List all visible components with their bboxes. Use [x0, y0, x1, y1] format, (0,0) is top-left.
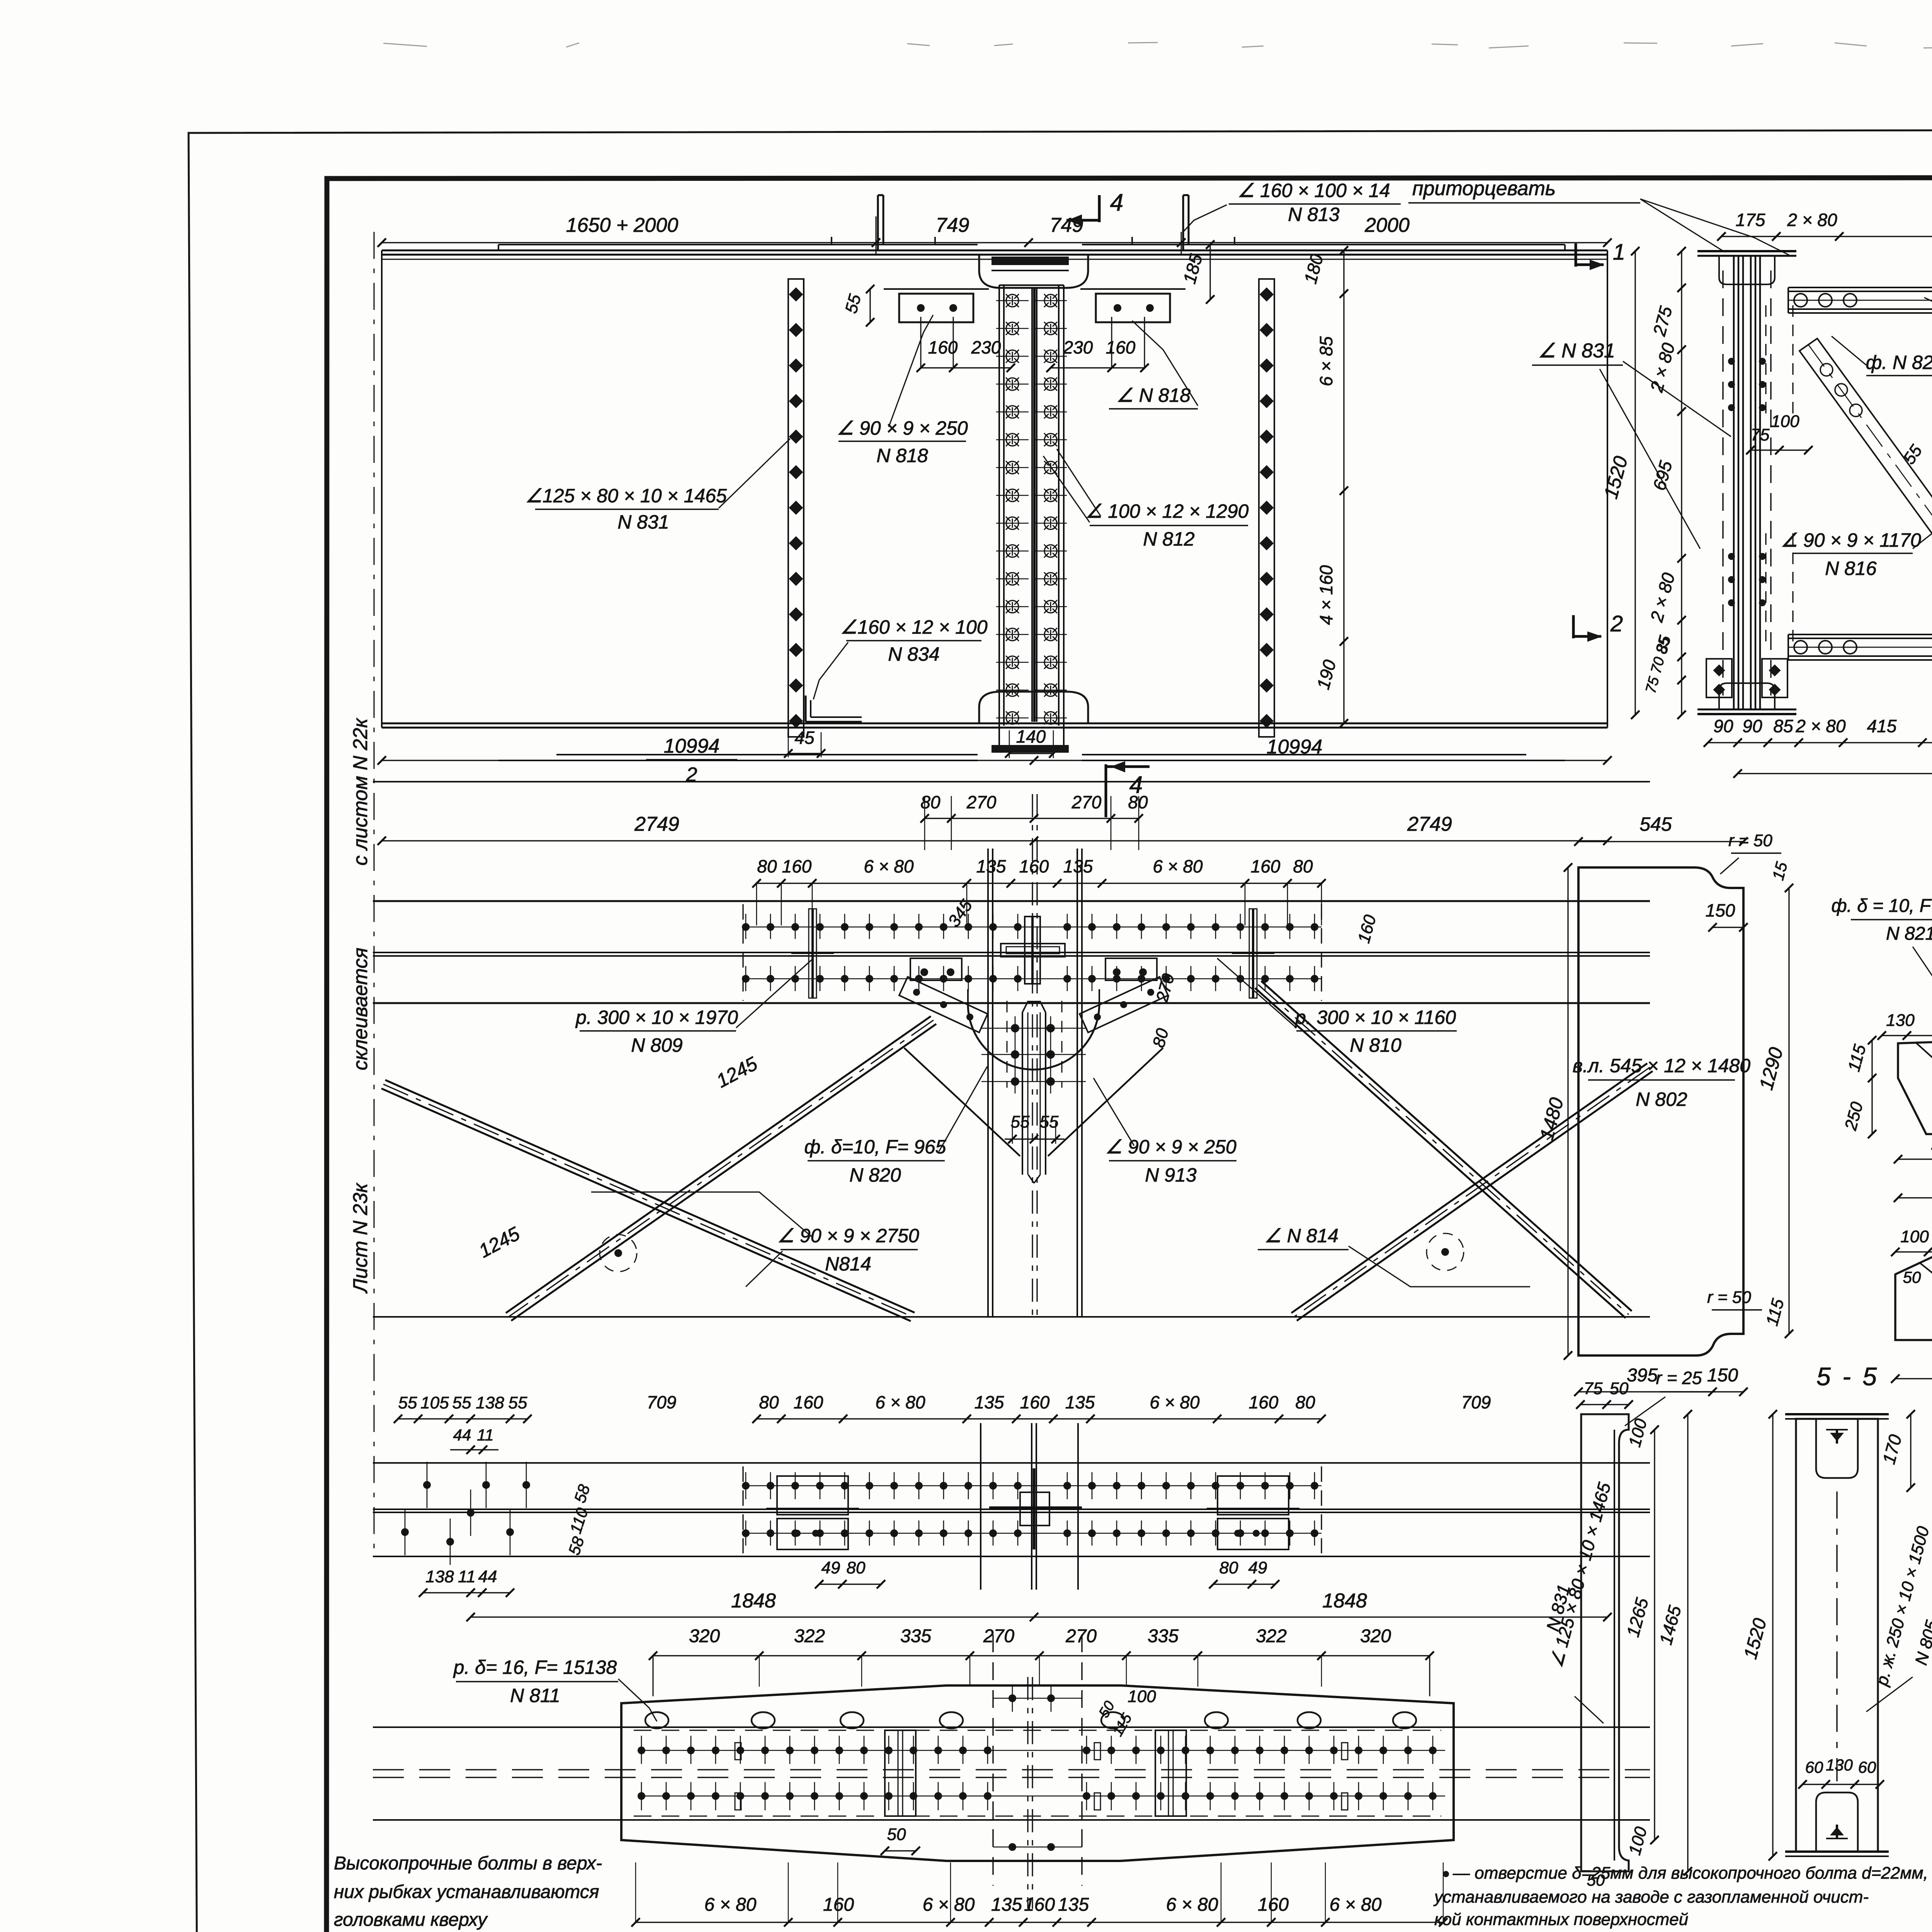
svg-text:60: 60 [1858, 1758, 1876, 1776]
svg-text:100: 100 [1128, 1687, 1156, 1706]
svg-text:6 × 80: 6 × 80 [704, 1895, 757, 1915]
svg-text:160: 160 [1020, 1392, 1050, 1412]
3-3 top chord [1788, 287, 1932, 288]
svg-text:N 818: N 818 [876, 445, 928, 466]
svg-text:∠ 90 × 9 × 1170: ∠ 90 × 9 × 1170 [1781, 529, 1921, 551]
beam band plan [373, 781, 1650, 782]
svg-text:р. 300 × 10 × 1160: р. 300 × 10 × 1160 [1294, 1007, 1456, 1028]
svg-text:∠ N 818: ∠ N 818 [1116, 384, 1190, 406]
cross beam vertical band [987, 849, 989, 1318]
stiffener angle N831 left [788, 279, 804, 737]
svg-text:N 812: N 812 [1143, 528, 1195, 550]
svg-text:160: 160 [1019, 856, 1049, 876]
svg-text:44: 44 [453, 1426, 471, 1444]
svg-text:49: 49 [821, 1558, 840, 1577]
svg-text:50: 50 [1587, 1871, 1605, 1889]
svg-text:80: 80 [847, 1558, 866, 1577]
svg-text:80: 80 [1295, 1392, 1315, 1412]
3-3 V braces [1799, 338, 1932, 607]
plan bolt rows [746, 927, 1321, 927]
gusset bolt group [1011, 1024, 1019, 1032]
svg-text:r = 50: r = 50 [1707, 1288, 1751, 1307]
X brace diagonals [385, 1080, 915, 1313]
svg-text:75: 75 [1751, 425, 1770, 444]
svg-text:335: 335 [1148, 1626, 1179, 1646]
svg-text:270: 270 [983, 1626, 1014, 1646]
svg-text:N 820: N 820 [849, 1164, 901, 1186]
svg-text:160: 160 [1106, 337, 1136, 357]
transverse connector left [811, 909, 814, 998]
svg-text:150: 150 [1706, 900, 1735, 920]
svg-text:415: 415 [1867, 716, 1897, 736]
svg-text:230: 230 [1063, 337, 1093, 357]
svg-text:160: 160 [794, 1392, 823, 1412]
strip bolt rows [746, 1485, 1321, 1486]
svg-text:1650 + 2000: 1650 + 2000 [566, 214, 679, 236]
svg-text:130: 130 [1886, 1011, 1915, 1030]
svg-text:44: 44 [478, 1567, 497, 1586]
svg-text:N 813: N 813 [1288, 204, 1340, 225]
svg-text:80: 80 [1219, 1558, 1238, 1577]
svg-text:r = 50: r = 50 [1728, 831, 1772, 850]
svg-text:160: 160 [823, 1895, 854, 1915]
svg-text:135: 135 [1063, 856, 1093, 876]
svg-text:322: 322 [794, 1626, 825, 1646]
fish verticals [885, 1730, 916, 1816]
svg-text:N 821: N 821 [1886, 923, 1932, 944]
svg-text:N 811: N 811 [510, 1685, 560, 1706]
svg-text:55: 55 [1011, 1112, 1030, 1131]
svg-text:140: 140 [1016, 726, 1046, 747]
top flange [382, 250, 1607, 252]
svg-text:138: 138 [425, 1567, 454, 1586]
svg-text:55: 55 [398, 1393, 417, 1412]
band-bottom tabs [910, 958, 962, 980]
3-3 bottom chord [1788, 634, 1932, 635]
svg-text:2 × 80: 2 × 80 [1795, 716, 1846, 736]
svg-text:545: 545 [1639, 813, 1672, 835]
svg-text:ф. N 821: ф. N 821 [1866, 352, 1932, 373]
svg-text:270: 270 [1065, 1626, 1097, 1646]
svg-text:80: 80 [757, 856, 777, 876]
oval holes [645, 1712, 668, 1728]
svg-text:N 816: N 816 [1825, 558, 1877, 579]
svg-text:Лист N 23к: Лист N 23к [349, 1182, 372, 1294]
top splice packing [979, 255, 1088, 288]
svg-text:55: 55 [452, 1393, 471, 1412]
svg-text:749: 749 [936, 214, 969, 236]
plan bottom boundary [373, 1316, 1650, 1318]
strip left bolts [401, 1528, 409, 1536]
svg-text:∠ 160 × 100 × 14: ∠ 160 × 100 × 14 [1237, 180, 1390, 201]
svg-text:N 834: N 834 [888, 643, 939, 665]
svg-text:1: 1 [1613, 240, 1625, 265]
stiffener tabs [877, 195, 879, 250]
svg-text:160: 160 [1258, 1895, 1289, 1915]
svg-text:∠ N 814: ∠ N 814 [1264, 1225, 1338, 1247]
svg-text:11: 11 [458, 1567, 476, 1586]
svg-text:80: 80 [759, 1392, 779, 1412]
svg-text:50: 50 [1903, 1268, 1921, 1286]
scan artifact dashes top [383, 43, 427, 46]
svg-text:2000: 2000 [1364, 214, 1410, 236]
svg-text:90: 90 [1742, 716, 1762, 736]
cross symbol (transverse stiffener) [1001, 944, 1065, 957]
svg-text:приторцевать: приторцевать [1412, 177, 1556, 200]
svg-text:135: 135 [975, 1392, 1004, 1412]
svg-text:230: 230 [971, 337, 1001, 357]
section mark 4 lower [1105, 764, 1107, 817]
brace end plates [899, 977, 988, 1032]
svg-text:135: 135 [1058, 1895, 1089, 1915]
svg-text:100: 100 [1900, 1227, 1929, 1246]
svg-text:ф. δ = 10, F = 1112: ф. δ = 10, F = 1112 [1831, 896, 1932, 916]
svg-text:6 × 80: 6 × 80 [1330, 1895, 1382, 1915]
svg-text:55: 55 [509, 1393, 527, 1412]
svg-text:N 831: N 831 [617, 511, 669, 533]
svg-text:6 × 80: 6 × 80 [875, 1392, 925, 1412]
svg-text:N 810: N 810 [1350, 1034, 1401, 1056]
svg-text:∠ 90 × 9 × 250: ∠ 90 × 9 × 250 [1105, 1136, 1236, 1158]
svg-text:6 × 80: 6 × 80 [1150, 1392, 1200, 1412]
DETAIL pentagon N820 [1898, 1040, 1932, 1134]
svg-text:6 × 80: 6 × 80 [923, 1895, 975, 1915]
svg-text:135: 135 [991, 1895, 1022, 1915]
svg-text:r = 25: r = 25 [1656, 1368, 1702, 1388]
svg-text:320: 320 [1360, 1626, 1391, 1646]
svg-text:2 × 80: 2 × 80 [1787, 210, 1837, 230]
svg-text:138: 138 [476, 1393, 504, 1412]
svg-text:270: 270 [1071, 792, 1102, 812]
svg-text:160: 160 [1251, 856, 1281, 876]
svg-text:N 802: N 802 [1636, 1088, 1687, 1110]
svg-text:них рыбках устанавливаются: них рыбках устанавливаются [334, 1882, 599, 1902]
svg-text:∠ 100 × 12 × 1290: ∠ 100 × 12 × 1290 [1085, 500, 1249, 522]
svg-text:100: 100 [1771, 412, 1799, 431]
svg-text:5 - 5: 5 - 5 [1816, 1362, 1879, 1391]
svg-text:устанавливаемого на заводе: устанавливаемого на заводе с газопламенн… [1433, 1888, 1869, 1906]
svg-text:6 × 80: 6 × 80 [1166, 1895, 1218, 1915]
splice bolt columns [1006, 294, 1019, 307]
svg-text:— отверстие δ=25мм для высо: — отверстие δ=25мм для высокопрочного бо… [1452, 1864, 1928, 1883]
svg-text:80: 80 [920, 792, 940, 812]
svg-text:395: 395 [1627, 1365, 1658, 1386]
svg-text:2: 2 [1610, 611, 1623, 636]
svg-text:2749: 2749 [1407, 813, 1452, 835]
svg-text:2: 2 [686, 764, 697, 786]
svg-text:головками кверху: головками кверху [334, 1910, 488, 1930]
section cut marks 1,2 [1575, 243, 1577, 267]
brace crossing circles [600, 1235, 637, 1272]
svg-text:50: 50 [1610, 1379, 1629, 1398]
svg-text:с листом N 22к: с листом N 22к [349, 718, 372, 866]
svg-text:105: 105 [420, 1393, 449, 1412]
svg-text:N 809: N 809 [631, 1034, 682, 1056]
svg-text:160: 160 [1249, 1392, 1279, 1412]
fish central band [992, 1634, 993, 1886]
svg-text:N814: N814 [825, 1253, 871, 1275]
angle N818 plates [899, 294, 973, 322]
fish plate outline [621, 1685, 1454, 1861]
fish bolt rows [641, 1750, 1445, 1751]
svg-text:335: 335 [900, 1626, 931, 1646]
stiffener angle N831 right [1259, 279, 1274, 737]
svg-text:90: 90 [1713, 716, 1733, 736]
svg-text:1848: 1848 [731, 1590, 776, 1612]
strip band lines [373, 1462, 1650, 1464]
web splice plates [1031, 288, 1033, 722]
svg-text:4: 4 [1129, 772, 1143, 798]
angle N834 [805, 696, 807, 722]
svg-text:∠ N 831: ∠ N 831 [1538, 340, 1615, 362]
svg-text:10994: 10994 [664, 735, 720, 757]
svg-text:∠ 90 × 9 × 250: ∠ 90 × 9 × 250 [837, 417, 968, 439]
dashed inner lines [634, 1730, 1441, 1731]
svg-text:709: 709 [1461, 1392, 1491, 1412]
svg-text:6 × 80: 6 × 80 [1153, 856, 1203, 876]
strip central cross [980, 1423, 981, 1590]
svg-text:160: 160 [782, 856, 812, 876]
3-3 left girder [1697, 250, 1796, 252]
svg-text:N 913: N 913 [1145, 1164, 1197, 1186]
svg-text:709: 709 [647, 1392, 677, 1412]
DETAIL trapezoid N822 [1895, 1254, 1932, 1340]
central gusset [968, 1004, 1099, 1070]
svg-text:270: 270 [966, 792, 997, 812]
gusset sloped edges [904, 1048, 1020, 1156]
beam lines [373, 1726, 1650, 1728]
svg-text:1848: 1848 [1322, 1590, 1367, 1612]
svg-text:80: 80 [1293, 856, 1313, 876]
svg-text:175: 175 [1736, 210, 1765, 230]
svg-text:6 × 85: 6 × 85 [1316, 336, 1336, 386]
svg-text:130: 130 [1826, 1756, 1853, 1774]
svg-text:склеивается: склеивается [349, 948, 372, 1070]
svg-text:49: 49 [1248, 1558, 1267, 1577]
svg-text:45: 45 [794, 728, 815, 748]
svg-text:135: 135 [1065, 1392, 1095, 1412]
svg-text:10994: 10994 [1267, 736, 1323, 758]
svg-text:ф. δ=10, F= 965: ф. δ=10, F= 965 [804, 1136, 946, 1158]
svg-text:2749: 2749 [634, 813, 679, 835]
svg-text:150: 150 [1707, 1365, 1738, 1386]
svg-text:4: 4 [1110, 189, 1123, 216]
bottom flange [382, 723, 1607, 724]
svg-text:в.л. 545 × 12 × 1480: в.л. 545 × 12 × 1480 [1573, 1055, 1750, 1077]
svg-text:∠125 × 80 × 10 × 1465: ∠125 × 80 × 10 × 1465 [525, 485, 727, 507]
svg-text:∠160 × 12 × 100: ∠160 × 12 × 100 [840, 616, 987, 638]
svg-text:р. δ= 16, F= 15138: р. δ= 16, F= 15138 [453, 1656, 617, 1678]
svg-text:11: 11 [477, 1426, 494, 1444]
svg-text:320: 320 [689, 1626, 720, 1646]
svg-text:р. 300 × 10 × 1970: р. 300 × 10 × 1970 [575, 1007, 738, 1028]
svg-text:75: 75 [1584, 1379, 1603, 1398]
svg-text:85: 85 [1773, 716, 1793, 736]
svg-text:Высокопрочные болты в верх: Высокопрочные болты в верх- [334, 1853, 602, 1874]
section mark 4 [1098, 195, 1101, 222]
svg-text:322: 322 [1256, 1626, 1287, 1646]
drawing frame [327, 177, 1932, 1932]
strip connectors [777, 1476, 848, 1515]
svg-text:135: 135 [976, 856, 1006, 876]
center stiffener in plan [1022, 1002, 1046, 1012]
svg-text:6 × 80: 6 × 80 [864, 856, 914, 876]
svg-text:50: 50 [887, 1825, 906, 1844]
svg-text:∠ 90 × 9 × 2750: ∠ 90 × 9 × 2750 [777, 1225, 919, 1247]
svg-text:60: 60 [1805, 1758, 1823, 1776]
svg-text:4 × 160: 4 × 160 [1316, 565, 1336, 625]
svg-text:160: 160 [1024, 1895, 1055, 1915]
svg-text:кой контактных поверхностей: кой контактных поверхностей [1434, 1910, 1688, 1929]
